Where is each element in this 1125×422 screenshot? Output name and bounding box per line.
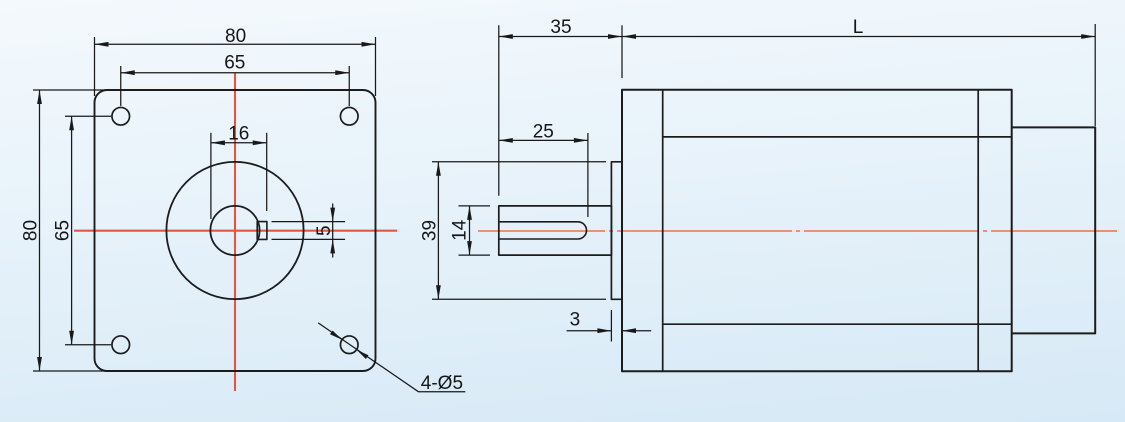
left view: square mounting flange plate outline bbox=[95, 90, 376, 371]
svg-text:3: 3 bbox=[570, 310, 581, 331]
arrows dim 65 left bbox=[69, 116, 74, 130]
dim L: dimension line bbox=[622, 36, 1095, 38]
dim 80 top: extension lines bbox=[94, 37, 96, 96]
side view: shaft keyway slot with rounded end bbox=[499, 222, 587, 239]
svg-text:25: 25 bbox=[533, 121, 554, 142]
dim 65 left: dimension line bbox=[71, 116, 73, 345]
arrows dim 5 (outside pointing in) bbox=[330, 208, 335, 222]
side view: front end-bell vertical line bbox=[662, 90, 664, 372]
svg-text:39: 39 bbox=[419, 220, 440, 241]
svg-text:4-Ø5: 4-Ø5 bbox=[421, 373, 463, 394]
dim 14: extension lines bbox=[459, 205, 491, 207]
dim 65 left: extension lines bbox=[65, 115, 111, 117]
svg-text:14: 14 bbox=[449, 219, 470, 241]
arrows dim 14 bbox=[467, 206, 472, 220]
svg-text:L: L bbox=[853, 17, 864, 38]
dim 35: dimension line bbox=[499, 36, 622, 38]
dim 25: right extension line bbox=[587, 133, 589, 217]
dim 39: dimension line bbox=[437, 162, 439, 299]
dim 5: dimension line bbox=[332, 204, 334, 258]
arrows dim 25 bbox=[499, 138, 513, 143]
corner hole bottom-left bbox=[112, 336, 130, 354]
dim 16: extension lines bbox=[210, 133, 212, 219]
dim 3: extension line bbox=[610, 310, 612, 342]
svg-text:35: 35 bbox=[550, 17, 571, 38]
horizontal centerline left view bbox=[74, 230, 397, 232]
arrows dim 35 bbox=[499, 34, 513, 39]
side view: front pilot flange plate 3mm bbox=[611, 162, 622, 299]
arrows dim 3 (outside pointing in) bbox=[597, 328, 611, 333]
arrows dim 16 bbox=[211, 140, 225, 145]
dim 3: right arrow line bbox=[622, 330, 651, 332]
svg-text:80: 80 bbox=[20, 220, 41, 241]
dim 80 top: dimension line bbox=[95, 43, 376, 45]
arrows dim 39 bbox=[436, 162, 441, 176]
svg-text:80: 80 bbox=[225, 26, 246, 47]
leader 4-Ø5 bbox=[318, 323, 465, 392]
side view: rear boss/cap rectangle bbox=[1012, 127, 1095, 333]
side view: stator bottom horizontal line bbox=[663, 323, 1012, 325]
vertical centerline left view bbox=[234, 73, 236, 391]
dim 80 left: extension lines bbox=[33, 89, 107, 91]
dim 65 top: dimension line bbox=[121, 72, 350, 74]
dim 16: dimension line bbox=[211, 142, 267, 144]
pilot boss circle Ø39 bbox=[166, 162, 303, 299]
corner hole top-right bbox=[340, 107, 358, 125]
arrows dim L bbox=[622, 34, 636, 39]
svg-text:16: 16 bbox=[228, 123, 249, 144]
arrows dim 80 top bbox=[95, 42, 109, 47]
side view: motor body outline bbox=[622, 90, 1012, 372]
dim 3: left arrow line bbox=[567, 330, 612, 332]
arrowheads bbox=[37, 34, 1095, 371]
side view orange centerline bbox=[478, 230, 1117, 232]
dim 25: dimension line bbox=[499, 139, 588, 141]
dim 5: extension lines bbox=[272, 221, 346, 223]
arrows dim 65 top bbox=[121, 70, 135, 75]
side view: rear end-bell vertical line bbox=[977, 90, 979, 372]
svg-text:65: 65 bbox=[52, 220, 73, 241]
shaft bore circle Ø14 bbox=[210, 206, 259, 255]
arrows leader 4-Ø5 at hole edges bbox=[330, 331, 342, 340]
svg-text:5: 5 bbox=[314, 225, 335, 236]
side view: shaft Ø14 bbox=[499, 206, 612, 255]
dim 65 top: extension lines bbox=[120, 66, 122, 106]
corner hole bottom-right bbox=[340, 336, 358, 354]
left view orange centerlines bbox=[74, 73, 397, 391]
svg-text:65: 65 bbox=[224, 53, 245, 74]
keyway notch in bore bbox=[257, 222, 267, 240]
dim 35: extension lines bbox=[498, 25, 500, 195]
side view: stator top horizontal line bbox=[663, 136, 1012, 138]
arrows dim 80 left bbox=[37, 90, 42, 104]
dim 14: dimension line bbox=[469, 206, 471, 255]
dim 39: extension lines bbox=[432, 161, 606, 163]
corner hole top-left bbox=[112, 107, 130, 125]
dim 80 left: dimension line bbox=[39, 90, 41, 371]
dim L: right extension line bbox=[1094, 24, 1096, 126]
